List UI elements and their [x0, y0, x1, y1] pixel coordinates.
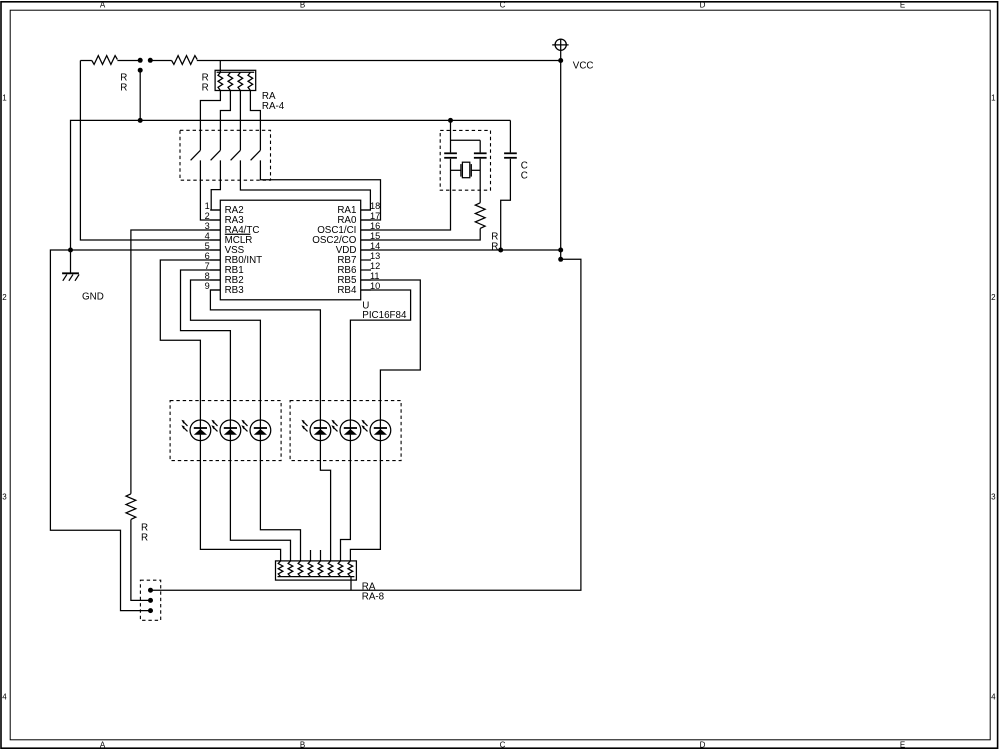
resistor network RA-8 element 1 — [278, 561, 283, 577]
wire D3 cathode to RA-8 pin 3 — [260, 441, 300, 561]
svg-text:B: B — [300, 741, 305, 750]
wire RB5 net (pin 11 to LED D6) — [361, 280, 421, 420]
resistor R3 (OSC2 series, vertical) — [475, 203, 485, 229]
svg-text:RA-4: RA-4 — [262, 101, 285, 112]
resistor network RA-4 element 1 — [218, 72, 223, 90]
svg-text:R: R — [491, 241, 498, 252]
resistor network RA-8 element 2 — [288, 561, 293, 577]
junction dot VDD at C3 — [498, 248, 503, 253]
pin 3 stub — [210, 229, 220, 231]
LED D4 — [301, 420, 330, 441]
wire RA-4 pin3 to switch 3 — [239, 91, 241, 151]
svg-text:12: 12 — [370, 261, 380, 271]
resistor network RA (RA-8) body — [276, 561, 357, 580]
svg-text:18: 18 — [370, 201, 380, 211]
wire VCC rail left segment — [80, 60, 91, 62]
switch S1 — [191, 150, 221, 220]
connector pin dot 2 — [148, 598, 153, 603]
wire D4 cathode to RA-8 pin 6 — [320, 441, 330, 561]
wire ground stub to symbol — [70, 250, 72, 273]
svg-text:A: A — [100, 741, 106, 750]
wire C2 bottom to resistor R3 — [479, 159, 481, 203]
wire ground horizontal line — [71, 120, 511, 250]
wire R4 bottom to connector pin 2 — [131, 520, 151, 601]
svg-text:17: 17 — [370, 211, 380, 221]
wire RA4/TC net (pin 3 to resistor R4) — [131, 230, 220, 494]
svg-text:1: 1 — [205, 201, 210, 211]
vcc supply symbol — [552, 39, 568, 60]
connector pin dot 1 — [148, 588, 153, 593]
pin 2 stub — [210, 219, 220, 221]
svg-text:13: 13 — [370, 251, 380, 261]
LED D2 — [211, 420, 240, 441]
wire VCC to LED return line — [151, 259, 581, 590]
ground symbol — [62, 273, 79, 281]
svg-text:E: E — [900, 1, 905, 10]
junction dot ground at VSS wire — [68, 248, 73, 253]
svg-text:A: A — [100, 1, 106, 10]
switch S2 — [211, 150, 221, 210]
junction dot VCC rail end — [558, 58, 563, 63]
svg-text:GND: GND — [82, 291, 104, 302]
LED D5 — [331, 420, 360, 441]
junction dot node R1 right — [138, 58, 143, 63]
wire D5 cathode to RA-8 pin 7 — [341, 441, 351, 561]
pin 13 stub — [361, 259, 371, 261]
pin 16 stub — [361, 229, 371, 231]
wire RA-8 common pin to return line — [350, 577, 352, 591]
wire inner link C1-C2 — [451, 139, 481, 141]
svg-text:D: D — [700, 1, 706, 10]
LED D1 — [181, 420, 210, 441]
pin 7 stub — [210, 269, 220, 271]
wire stub to ground line — [139, 70, 141, 120]
wire cap C2 top lead — [479, 140, 481, 152]
capacitor C2 — [474, 153, 487, 158]
crystal Q1 — [451, 162, 481, 178]
wire VCC feed into RA-4 network — [219, 61, 221, 73]
pin 18 stub — [361, 209, 371, 211]
resistor R4 (vertical, lower left) — [126, 494, 136, 520]
svg-text:RB3: RB3 — [225, 285, 245, 296]
resistor network RA-4 element 4 — [248, 72, 253, 90]
svg-text:C: C — [500, 741, 506, 750]
wire RA-4 pin4 to switch 4 — [250, 91, 260, 151]
wire RB3 net (pin 9 to LED D4) — [210, 290, 320, 420]
resistor network RA-8 element 4 — [308, 561, 313, 577]
pin 8 stub — [210, 279, 220, 281]
pin 6 stub — [210, 259, 220, 261]
wire RA-4 pin1 to switch 1 — [200, 91, 220, 151]
wire MCLR net (R1 left to pin 4) — [80, 61, 220, 241]
svg-text:3: 3 — [991, 493, 996, 502]
svg-text:RA-8: RA-8 — [362, 592, 385, 603]
svg-text:1: 1 — [991, 93, 996, 102]
svg-text:C: C — [521, 171, 528, 182]
svg-text:B: B — [300, 1, 305, 10]
wire D2 cathode to RA-8 pin 2 — [230, 441, 290, 561]
pin 15 stub — [361, 239, 371, 241]
capacitor C3 — [504, 153, 517, 158]
svg-text:R: R — [202, 82, 209, 93]
wire VSS net (pin 5) — [50, 250, 220, 611]
svg-text:VCC: VCC — [573, 60, 594, 71]
junction dot VDD at VCC line — [558, 248, 563, 253]
wire VDD net (pin 14 to VCC line) — [361, 249, 561, 251]
switch S4 — [251, 150, 381, 220]
resistor network RA-8 element 5 — [318, 561, 323, 577]
connector pin dot 3 — [148, 608, 153, 613]
svg-text:RB4: RB4 — [337, 285, 357, 296]
svg-text:PIC16F84: PIC16F84 — [362, 310, 407, 321]
svg-text:C: C — [500, 1, 506, 10]
svg-text:4: 4 — [205, 231, 210, 241]
resistor network RA-8 element 6 — [328, 561, 333, 577]
resistor network RA (RA-4) body — [215, 70, 256, 90]
pin 4 stub — [210, 239, 220, 241]
svg-text:4: 4 — [991, 692, 996, 701]
switch block dashed box — [180, 130, 271, 180]
crystal block dashed box — [440, 130, 490, 190]
svg-text:1: 1 — [2, 93, 7, 102]
wire C3 bottom to VDD net — [501, 159, 511, 250]
resistor network RA-8 element 7 — [338, 561, 343, 577]
wire RB0 net (pin 6 to LED D1) — [160, 260, 220, 420]
wire RB4 net (pin 10 to LED D5) — [350, 290, 410, 420]
wire cap C1 top lead — [450, 120, 452, 152]
junction dot on ground line — [138, 118, 143, 123]
junction dot ground line at crystal — [448, 118, 453, 123]
wire RA-8 pin 5 stub — [320, 550, 322, 561]
resistor network RA-4 element 3 — [238, 72, 243, 90]
pin 5 stub — [210, 249, 220, 251]
svg-text:2: 2 — [205, 211, 210, 221]
connector dashed box — [140, 580, 160, 620]
svg-text:4: 4 — [2, 692, 7, 701]
svg-text:5: 5 — [205, 241, 210, 251]
pin 9 stub — [210, 289, 220, 291]
wire RB1 net (pin 7 to LED D2) — [181, 270, 231, 420]
wire R2 left lead — [150, 60, 171, 62]
wire VCC rail right segment — [197, 60, 561, 62]
pin 12 stub — [361, 269, 371, 271]
wire RB2 net (pin 8 to LED D3) — [191, 280, 261, 420]
resistor R2 (horizontal, to resistor network) — [172, 56, 198, 65]
svg-text:D: D — [700, 741, 706, 750]
LED D6 — [361, 420, 390, 441]
wire RA-4 pin2 to switch 2 — [220, 91, 230, 151]
LED group 1 dashed box — [170, 401, 281, 461]
wire OSC1 net (C1 bottom to pin 16) — [361, 159, 451, 230]
junction dot stub top — [138, 68, 143, 73]
svg-text:E: E — [900, 741, 905, 750]
wire D6 cathode to RA-8 pin 8 — [350, 441, 380, 561]
pin 1 stub — [210, 209, 220, 211]
pin 14 stub — [361, 249, 371, 251]
svg-text:2: 2 — [991, 293, 996, 302]
op IC U PIC16F84 body — [220, 200, 360, 300]
wire RA-8 pin 4 stub — [310, 550, 312, 561]
overline RA4/TC-MCLR — [225, 233, 251, 235]
wire VCC vertical line — [560, 61, 562, 260]
wire ground line to cap C3 — [509, 120, 511, 152]
svg-text:2: 2 — [2, 293, 7, 302]
junction dot node R2 left — [148, 58, 153, 63]
capacitor C1 — [444, 153, 457, 158]
LED D3 — [241, 420, 270, 441]
LED group 2 dashed box — [290, 401, 401, 461]
resistor network RA-8 element 8 — [348, 561, 353, 577]
resistor network RA-4 element 2 — [228, 72, 233, 90]
resistor network RA-8 element 3 — [298, 561, 303, 577]
wire R1 right lead — [117, 60, 140, 62]
pin 10 stub — [361, 289, 371, 291]
wire OSC2 net (R3 bottom to pin 15) — [361, 229, 481, 241]
switch S3 — [231, 150, 371, 210]
resistor R1 (MCLR pull-up, horizontal) — [92, 56, 118, 65]
wire D1 cathode to RA-8 pin 1 — [200, 441, 280, 561]
svg-text:R: R — [141, 532, 148, 543]
svg-text:R: R — [120, 82, 127, 93]
svg-text:3: 3 — [2, 493, 7, 502]
junction dot VCC branch — [558, 257, 563, 262]
pin 17 stub — [361, 219, 371, 221]
svg-text:9: 9 — [205, 281, 210, 291]
pin 11 stub — [361, 279, 371, 281]
